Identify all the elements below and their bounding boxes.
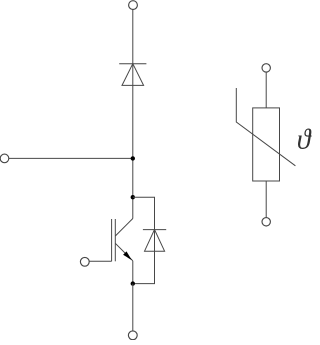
terminal T2 (thermistor bottom)	[262, 218, 270, 226]
wire thermistor top	[265, 72, 267, 108]
terminal G (gate)	[80, 257, 89, 266]
wire freewheel branch	[133, 197, 155, 283]
svg-text:ϑ: ϑ	[297, 124, 312, 155]
emitter arrow	[123, 251, 132, 260]
terminal AC (left)	[0, 154, 9, 163]
node junction 1	[131, 156, 135, 160]
node junction 3	[131, 281, 135, 285]
node junction 2	[131, 195, 135, 199]
wire emitter to bottom	[132, 284, 134, 331]
transistor Q1 (IGBT)	[112, 219, 133, 284]
diode D2	[143, 230, 166, 252]
terminal C (top)	[129, 1, 138, 10]
terminal E (bottom)	[128, 331, 137, 340]
wire thermistor bottom	[265, 181, 267, 218]
main collector wire	[132, 10, 134, 219]
wire AC	[9, 157, 133, 159]
wire gate lead	[89, 260, 112, 262]
diode D1	[119, 64, 146, 86]
thermistor diagonal stroke	[236, 88, 295, 166]
terminal T1 (thermistor top)	[262, 64, 270, 72]
thermistor RT body	[253, 108, 280, 181]
